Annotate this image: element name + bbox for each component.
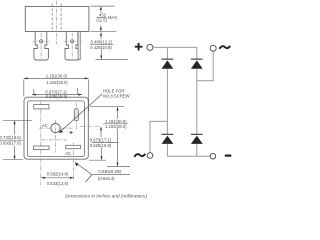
outer body outline [24,97,88,159]
dimension .452(11.5) MAX [91,6,117,32]
centerlines faston right [64,40,82,42]
svg-text:MAX: MAX [108,15,117,20]
terminal slot 4 (right, rotated) [74,109,78,121]
rear faston edge-on (side view) [78,32,80,60]
terminal circle ~ bottom [147,153,153,159]
svg-text:1.102(28.0): 1.102(28.0) [46,80,68,85]
wire stub D4 bottom [196,144,198,156]
mounting hole [51,124,60,133]
terminal circle ~ top [210,45,216,51]
faston lead left (side view) [34,32,49,60]
tilde top right [219,46,230,49]
centerline right slot column [72,143,74,181]
minus terminal symbol [225,155,232,157]
wire right column [196,69,198,134]
bottom rail wire [167,144,210,156]
top rail wire [153,47,197,59]
svg-text:(11.5): (11.5) [96,18,107,23]
dimension 0.480(12.2)/0.425(10.8) [90,33,128,60]
leader to hole [60,94,103,132]
centerline hole horizontal [39,127,50,129]
diode D1 [162,58,174,60]
centerline hole vertical [55,120,57,153]
svg-text:0.543(13.8): 0.543(13.8) [47,181,69,186]
wire left column [166,69,168,134]
leader to terminal slot 3 [76,163,92,175]
centerline horizontal lower [41,139,67,141]
svg-text:(0.8x6.4): (0.8x6.4) [98,176,115,181]
terminal slot 3 (bottom right) [66,145,81,148]
svg-text:0.693(17.6): 0.693(17.6) [0,140,22,145]
svg-text:0.732(18.6): 0.732(18.6) [0,135,22,140]
svg-text:AC: AC [65,151,71,156]
plus terminal symbol [135,43,143,51]
svg-text:0.480(12.2): 0.480(12.2) [91,40,113,45]
terminal circle - [210,153,216,159]
dimension 0.582(14.8)/0.543(13.8) bottom [41,177,74,179]
AC2 wire [197,51,213,81]
terminal slot 2 (bottom left) [34,146,50,150]
dimension 0.732(18.6)/0.693(17.6) left [0,120,32,159]
svg-text:0.582(14.8): 0.582(14.8) [47,171,69,176]
dimension 0.673(17.1)/0.625(15.9) right [89,127,118,160]
svg-text:0.625(15.9): 0.625(15.9) [46,94,68,99]
dimension 1.181(30.0)/1.102(28.0) right [90,107,130,167]
vertical centerline of body [56,1,58,45]
diode D3 [162,133,174,135]
terminal circle + [147,44,153,50]
svg-text:0.625(15.9): 0.625(15.9) [90,143,112,148]
faston hole left [39,40,42,43]
dimension 1.181(30.0)/1.102(28.0) top [24,78,89,111]
svg-text:1.181(30.0): 1.181(30.0) [46,73,68,78]
package body (side view) [25,7,89,32]
wire stub D1 [166,47,168,59]
dimension 0.673(17.1)/0.625(15.9) top [32,94,82,96]
inner body outline [27,101,84,157]
tilde bottom left [134,154,145,157]
diode D2 [191,58,203,60]
faston lead right (side view) [65,32,80,60]
AC1 wire [150,121,167,152]
centerlines faston left [33,40,50,42]
centerline left slot column [40,101,42,185]
svg-text:1.102(28.0): 1.102(28.0) [105,124,127,129]
diode D4 [191,133,203,135]
svg-text:0.425(10.8): 0.425(10.8) [90,45,112,50]
centerline slot 4 vertical [75,103,77,131]
faston hole right [71,40,74,43]
centerline extension right [80,125,99,127]
plus polarity mark [69,131,72,134]
svg-text:Dimensions in inches and (mill: Dimensions in inches and (millimeters) [65,194,148,200]
hidden mounting hole (dashed) [52,4,61,32]
terminal slot 1 (top left) [34,105,49,109]
svg-text:0.673(17.1): 0.673(17.1) [90,138,112,143]
svg-text:NO.8 SCREW: NO.8 SCREW [103,94,130,99]
svg-text:0.030x0.250: 0.030x0.250 [98,169,122,174]
svg-text:AC: AC [42,123,48,128]
